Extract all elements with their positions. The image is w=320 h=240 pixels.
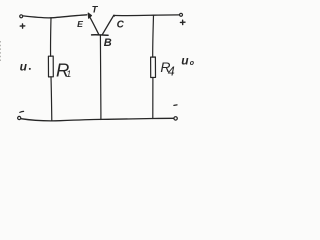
terminal bottom-left (- input) — [18, 116, 21, 119]
wire base lead to bottom rail — [99, 35, 102, 119]
resistor R4 — [151, 57, 156, 78]
terminal bottom-right (- output) — [174, 117, 177, 120]
svg-text:o: o — [190, 60, 195, 67]
minus sign output — [174, 104, 177, 107]
plus sign input — [20, 24, 25, 28]
svg-text:T: T — [92, 5, 99, 16]
terminal top-right (+ output) — [180, 13, 183, 16]
wire R1 bottom lead — [50, 77, 53, 121]
transistor T : collector — [102, 15, 113, 34]
plus sign output — [180, 20, 185, 24]
wire R1 top lead — [50, 18, 52, 56]
svg-text:C: C — [117, 20, 125, 31]
wire R4 bottom lead — [152, 78, 154, 119]
svg-text:4: 4 — [168, 65, 175, 79]
minus sign input — [20, 111, 24, 112]
transistor T : base bar — [92, 34, 109, 36]
svg-text:u: u — [181, 53, 189, 67]
svg-text:E: E — [77, 19, 84, 29]
wire top rail right — [114, 14, 180, 17]
wire R4 top lead — [152, 15, 155, 57]
wire bottom rail — [21, 118, 174, 121]
resistor R1 — [48, 56, 53, 77]
svg-text:B: B — [104, 37, 112, 49]
svg-text:1: 1 — [66, 69, 71, 79]
wire top rail left — [23, 15, 87, 18]
faint page-edge mark left — [0, 41, 2, 62]
junction collector/top rail — [113, 15, 115, 17]
transistor T : emitter with arrow — [89, 16, 99, 35]
terminal top-left (+ input) — [20, 15, 23, 18]
svg-text:u: u — [20, 59, 28, 73]
